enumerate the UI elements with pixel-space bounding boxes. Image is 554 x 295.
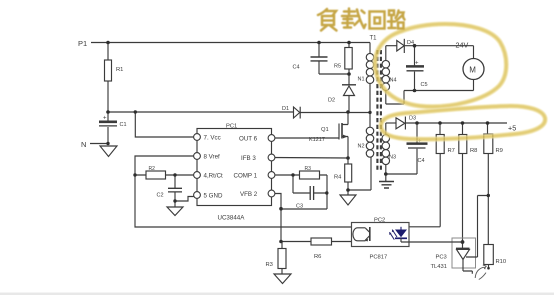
svg-text:C5: C5: [421, 82, 428, 88]
svg-text:R5: R5: [334, 64, 341, 70]
svg-text:8 Vref: 8 Vref: [204, 154, 221, 161]
svg-text:C2: C2: [157, 193, 164, 199]
svg-text:D4: D4: [407, 40, 414, 46]
svg-text:D3: D3: [409, 116, 416, 122]
svg-text:D2: D2: [328, 98, 335, 104]
svg-text:C4: C4: [293, 65, 300, 71]
svg-text:N3: N3: [389, 155, 396, 161]
svg-text:N4: N4: [390, 78, 397, 84]
svg-text:4,Rt/Ct: 4,Rt/Ct: [204, 173, 224, 180]
svg-text:TL431: TL431: [431, 264, 447, 270]
svg-text:C4: C4: [418, 158, 425, 164]
svg-text:R9: R9: [496, 148, 503, 154]
svg-text:R10: R10: [496, 259, 507, 265]
svg-text:T1: T1: [370, 36, 378, 42]
svg-text:24V: 24V: [456, 41, 469, 50]
svg-text:N: N: [81, 140, 86, 149]
svg-text:Q1: Q1: [321, 127, 329, 133]
svg-text:+: +: [415, 61, 419, 67]
svg-text:C1: C1: [120, 122, 127, 128]
svg-text:K1217: K1217: [309, 137, 325, 143]
svg-text:R4: R4: [334, 175, 342, 181]
svg-text:PC817: PC817: [370, 255, 388, 261]
svg-text:R3: R3: [266, 262, 273, 268]
svg-text:R3: R3: [305, 166, 312, 172]
svg-text:R8: R8: [470, 148, 477, 154]
svg-text:5 GND: 5 GND: [204, 193, 223, 200]
svg-text:PC2: PC2: [374, 218, 385, 224]
svg-text:P1: P1: [78, 39, 87, 48]
svg-text:UC3844A: UC3844A: [218, 215, 246, 222]
svg-text:N1: N1: [358, 77, 365, 83]
svg-text:+5: +5: [508, 124, 516, 133]
svg-text:OUT 6: OUT 6: [239, 136, 258, 143]
svg-text:PC3: PC3: [436, 255, 447, 261]
svg-text:R6: R6: [314, 254, 321, 260]
svg-text:7. Vcc: 7. Vcc: [204, 135, 221, 142]
svg-text:M: M: [469, 65, 476, 74]
svg-text:R1: R1: [116, 67, 123, 73]
svg-text:IFB 3: IFB 3: [241, 155, 256, 162]
svg-text:D1: D1: [282, 106, 289, 112]
svg-text:VFB 2: VFB 2: [240, 191, 258, 198]
svg-text:COMP 1: COMP 1: [234, 173, 258, 180]
svg-text:C3: C3: [296, 204, 303, 210]
svg-text:R7: R7: [448, 148, 455, 154]
svg-text:N2: N2: [358, 144, 365, 150]
svg-text:+: +: [103, 116, 107, 122]
svg-text:R2: R2: [149, 166, 156, 172]
svg-text:PC1: PC1: [226, 124, 237, 130]
